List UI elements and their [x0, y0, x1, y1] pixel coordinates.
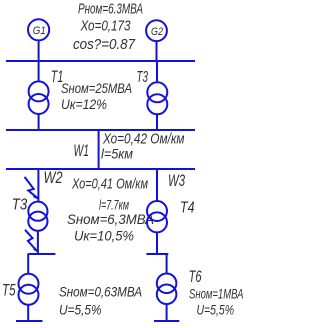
- wire T3 to busbar2: [156, 114, 158, 130]
- svg-text:T6: T6: [189, 268, 203, 286]
- svg-text:Sном=1МВА: Sном=1МВА: [189, 287, 244, 303]
- svg-text:cos?=0.87: cos?=0.87: [73, 36, 135, 53]
- svg-text:U=5,5%: U=5,5%: [197, 303, 235, 319]
- svg-text:Uк=10,5%: Uк=10,5%: [74, 228, 134, 244]
- svg-text:T3: T3: [12, 196, 28, 213]
- wire to T6: [166, 254, 168, 275]
- transformer T3 (upper right): [147, 82, 167, 114]
- svg-text:T4: T4: [180, 199, 195, 216]
- generator G2: [146, 20, 167, 41]
- node bar right (load bus): [146, 253, 168, 255]
- svg-text:Sном=0,63МВА: Sном=0,63МВА: [59, 285, 142, 301]
- svg-text:Хо=0,41 Ом/км: Хо=0,41 Ом/км: [71, 175, 148, 192]
- wire T3 left down: [37, 231, 39, 254]
- svg-text:Рном=6.3МВА: Рном=6.3МВА: [78, 0, 143, 17]
- wire busbar1 to T1: [38, 61, 40, 82]
- transformer T6: [157, 274, 177, 305]
- wire T4 down: [156, 232, 158, 253]
- svg-text:U=5,5%: U=5,5%: [59, 303, 102, 319]
- transformer T3 (left): [28, 202, 47, 231]
- svg-text:Хо=0,173: Хо=0,173: [80, 18, 131, 35]
- wire busbar1 to T3 top: [156, 61, 158, 82]
- transformer T4: [147, 201, 167, 232]
- svg-text:l=7.7км: l=7.7км: [99, 197, 129, 213]
- svg-text:W3: W3: [168, 172, 186, 190]
- svg-text:Sном=25МВА: Sном=25МВА: [61, 81, 132, 97]
- wire below T5: [27, 305, 29, 321]
- wire below T6: [166, 304, 168, 321]
- generator G1: [28, 19, 49, 40]
- wire to T5: [27, 254, 29, 275]
- busbar 2: [6, 129, 195, 131]
- line W3: [156, 169, 158, 201]
- fault arrow (lightning bolt) lower: [25, 230, 38, 253]
- svg-text:Sном=6,3МВА: Sном=6,3МВА: [67, 212, 154, 228]
- transformer T1: [29, 81, 49, 114]
- svg-text:l=5км: l=5км: [101, 146, 133, 162]
- busbar 3: [6, 168, 195, 170]
- wire T1 to busbar2: [38, 114, 40, 130]
- fault arrow (lightning bolt) on W2: [25, 177, 39, 200]
- node bar left (load bus): [28, 253, 55, 255]
- transformer T5: [19, 274, 39, 305]
- terminal bar T5: [16, 320, 43, 322]
- busbar 1: [6, 60, 195, 62]
- line W1: [98, 130, 100, 169]
- svg-text:T5: T5: [2, 281, 16, 299]
- terminal bar T6: [154, 320, 179, 322]
- svg-text:W1: W1: [74, 142, 90, 160]
- wire G2 to busbar1: [156, 41, 158, 61]
- svg-text:G1: G1: [33, 25, 46, 37]
- wire G1 to busbar1: [38, 40, 40, 61]
- line W2: [37, 169, 39, 202]
- svg-text:G2: G2: [151, 26, 164, 38]
- svg-text:Uк=12%: Uк=12%: [61, 97, 107, 113]
- svg-text:T3: T3: [137, 69, 149, 86]
- svg-text:W2: W2: [44, 169, 63, 187]
- svg-text:Хо=0,42 Ом/км: Хо=0,42 Ом/км: [102, 130, 184, 147]
